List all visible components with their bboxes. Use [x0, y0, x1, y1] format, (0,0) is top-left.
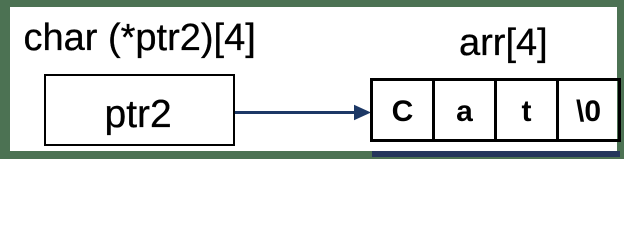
label: char (*ptr2)[4] — [24, 17, 256, 60]
green band top — [0, 0, 624, 7]
label: arr[4] — [459, 22, 548, 65]
label ptr2 inside box — [105, 93, 172, 137]
cell C — [373, 81, 435, 139]
green band right — [617, 0, 624, 159]
cell t — [497, 81, 559, 139]
box ptr2 (rectangle) — [44, 74, 235, 146]
arrowhead — [354, 104, 371, 120]
green band left — [0, 0, 10, 159]
arrow from ptr2 box to array — [233, 100, 375, 128]
array arr[4] cells — [370, 78, 621, 142]
navy bar bottom right (clipped element below) — [372, 151, 620, 157]
green band bottom — [0, 151, 624, 160]
cell a — [435, 81, 497, 139]
wire: arrow shaft — [235, 111, 357, 114]
cell \0 — [559, 81, 618, 139]
